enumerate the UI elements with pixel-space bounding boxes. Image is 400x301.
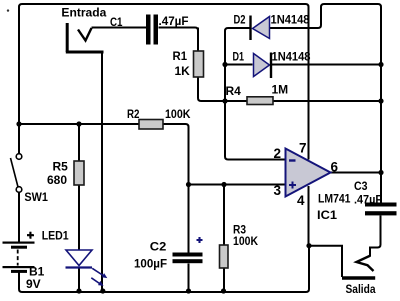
svg-text:+: + — [27, 228, 34, 242]
svg-text:100µF: 100µF — [134, 257, 167, 271]
svg-text:Salida: Salida — [346, 282, 376, 296]
svg-text:3: 3 — [274, 183, 282, 198]
svg-text:D1: D1 — [233, 49, 245, 63]
svg-text:R4: R4 — [226, 84, 242, 98]
svg-text:D2: D2 — [234, 12, 246, 26]
svg-text:4: 4 — [297, 193, 305, 208]
svg-text:.47µF: .47µF — [354, 193, 382, 207]
svg-text:Entrada: Entrada — [61, 6, 106, 20]
svg-text:1N4148: 1N4148 — [271, 12, 310, 26]
svg-text:2: 2 — [274, 146, 282, 161]
svg-text:SW1: SW1 — [24, 190, 48, 204]
svg-text:9V: 9V — [26, 277, 41, 291]
svg-text:LM741: LM741 — [318, 192, 351, 206]
svg-text:7: 7 — [299, 141, 307, 156]
svg-text:R1: R1 — [173, 49, 188, 63]
svg-text:1M: 1M — [272, 83, 289, 97]
svg-text:LED1: LED1 — [42, 229, 69, 243]
svg-text:R2: R2 — [127, 107, 140, 121]
svg-text:.47µF: .47µF — [159, 14, 189, 28]
svg-text:680: 680 — [47, 173, 67, 187]
svg-text:1K: 1K — [175, 64, 191, 78]
svg-text:6: 6 — [331, 160, 339, 175]
svg-text:C2: C2 — [150, 240, 167, 254]
svg-text:C3: C3 — [354, 179, 368, 193]
svg-text:R5: R5 — [53, 160, 69, 174]
svg-text:100K: 100K — [165, 107, 191, 121]
svg-text:1N4148: 1N4148 — [272, 49, 311, 63]
svg-text:100K: 100K — [233, 234, 258, 248]
svg-text:C1: C1 — [110, 15, 123, 29]
svg-text:IC1: IC1 — [317, 208, 337, 222]
